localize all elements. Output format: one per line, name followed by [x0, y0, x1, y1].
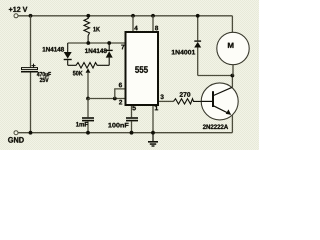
label 1N4148 right: [85, 48, 107, 53]
diode D2 1N4148 (up): [106, 43, 113, 65]
wire: wiper column to C2: [87, 99, 89, 118]
terminal GND: [14, 131, 18, 135]
wire: emitter down to GND rail: [231, 115, 233, 133]
label 50K: [73, 71, 83, 76]
motor M1: [217, 32, 249, 64]
wire: C1 to GND rail: [30, 73, 32, 133]
label 100nF: [108, 123, 128, 128]
wire: link to pin 6: [115, 89, 125, 99]
label pin 5: [132, 105, 135, 110]
wire: GND bottom rail: [18, 132, 232, 134]
capacitor C3 100nF: [126, 117, 138, 133]
label 1K: [93, 27, 100, 31]
ground symbol: [148, 133, 158, 147]
terminal +12V: [14, 14, 18, 18]
label 2N2222A: [203, 124, 228, 129]
label pin 8: [155, 26, 158, 31]
wire: pin 4: [132, 16, 134, 31]
potentiometer R2 50K: [68, 63, 110, 99]
label pin 6: [119, 83, 122, 88]
diode D1 1N4148 (down): [64, 43, 72, 65]
resistor R1 1K: [84, 16, 90, 43]
wire: motor bottom to node: [232, 65, 234, 76]
node: junction top rail / pin 8: [151, 14, 155, 18]
label 555: [135, 66, 148, 73]
wire: pin 5 down: [131, 106, 133, 117]
label +12 V: [9, 7, 27, 12]
label GND: [8, 137, 24, 143]
label pin 7: [121, 45, 124, 49]
node: junction pin 1 / GND rail: [151, 131, 155, 135]
node: junction top rail / D3: [196, 14, 200, 18]
label 1N4001: [172, 50, 195, 55]
node: junction top rail / R1: [86, 14, 90, 18]
transistor Q1 2N2222A: [201, 83, 238, 120]
wire: collector up to node: [231, 76, 233, 88]
wire: top rail corner down to motor: [231, 16, 233, 33]
capacitor C2 1mF: [82, 117, 94, 133]
wire: discharge row to pin 7: [68, 42, 125, 44]
wire: pin 1 down: [152, 106, 154, 133]
label pin 2: [119, 100, 122, 105]
node: junction C3 / GND rail: [130, 131, 134, 135]
node: junction C2 / GND rail: [86, 131, 90, 135]
wire: +12V top power rail: [18, 15, 232, 17]
wire: D3 bottom to collector node: [198, 75, 233, 77]
node: junction pin2/pin6 link: [113, 97, 117, 101]
label pin 4: [134, 26, 137, 30]
label 25V: [40, 78, 49, 82]
label M: [228, 43, 234, 48]
node: junction R1 bottom: [86, 41, 90, 45]
label 1mF: [76, 122, 88, 126]
node: junction top rail / pin 4: [131, 14, 135, 18]
node: junction top rail / C1: [29, 14, 33, 18]
label pin 3: [160, 94, 163, 99]
node: junction wiper / pin2 row: [86, 97, 90, 101]
wire: pin 8: [152, 16, 154, 31]
label pin 1: [155, 105, 158, 110]
wire: pin 2 row: [88, 98, 125, 100]
node: junction collector/motor/D3: [231, 74, 235, 78]
wire: pin 3 to R3: [159, 100, 174, 102]
diode D3 1N4001 (flyback, up): [194, 16, 201, 76]
op-amp U1 555 timer box: [126, 32, 159, 105]
node: junction GND rail / C1: [29, 131, 33, 135]
label 470uF: [37, 72, 51, 78]
label 270: [180, 92, 191, 97]
wire: top rail down to C1: [30, 16, 32, 68]
capacitor C1 470uF 25V electrolytic: [21, 64, 38, 73]
label 1N4148 left: [43, 47, 64, 52]
node: junction D2 top: [107, 41, 111, 45]
resistor R3 270: [174, 99, 202, 104]
